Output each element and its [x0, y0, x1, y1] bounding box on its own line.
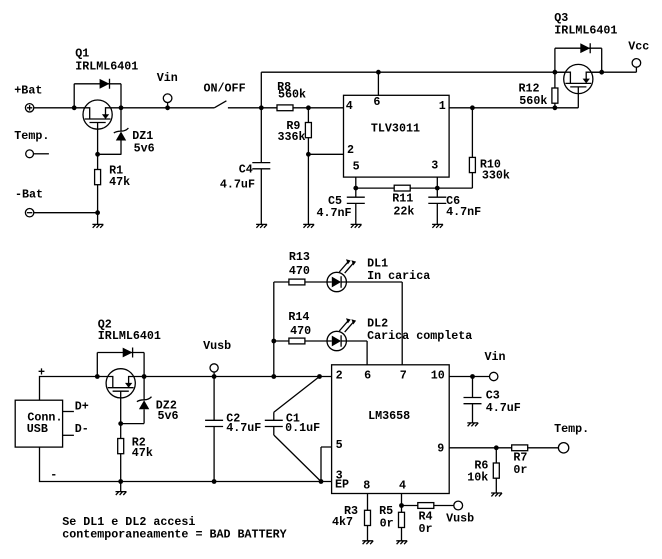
wire Q1 to switch [121, 107, 214, 109]
svg-text:Temp.: Temp. [554, 422, 589, 436]
diode body diode of Q3 [555, 43, 602, 72]
wire pin5 to ground rail [321, 447, 332, 482]
diode DZ1 zener [114, 108, 129, 155]
svg-text:Temp.: Temp. [14, 129, 49, 143]
svg-text:Vusb: Vusb [203, 339, 231, 353]
svg-text:330k: 330k [482, 169, 510, 183]
wire Q3 to Vcc [602, 67, 637, 72]
ground C3 [467, 423, 478, 426]
svg-text:R11: R11 [392, 191, 413, 205]
node Q1 right junction [119, 105, 124, 110]
terminal -Bat [15, 188, 43, 217]
LED DL2 [327, 318, 356, 351]
svg-text:C4: C4 [239, 163, 253, 177]
svg-text:4.7nF: 4.7nF [317, 206, 352, 220]
resistor R11 [392, 185, 414, 218]
svg-text:D+: D+ [75, 399, 89, 413]
svg-text:Carica completa: Carica completa [367, 329, 472, 343]
node C2 ground junction [212, 479, 217, 484]
wire USB minus / ground rail [40, 447, 332, 481]
LED DL1 [327, 259, 356, 292]
resistor R7 [512, 445, 559, 477]
terminal Vin bottom [485, 350, 506, 381]
ground R2 [116, 492, 127, 495]
wire +Bat to Q1 [34, 107, 75, 109]
transistor Q3 [555, 64, 602, 93]
node R9 bottom junction [306, 152, 311, 157]
node gate/DZ1/R1 junction [95, 152, 100, 157]
capacitor C1 [265, 377, 321, 482]
wire pin6 drop [377, 72, 379, 95]
node C1 top junction [317, 374, 322, 379]
terminal Vcc [628, 39, 649, 67]
wire Vusb rail [144, 376, 332, 378]
svg-text:47k: 47k [132, 446, 153, 460]
svg-text:470: 470 [290, 324, 311, 338]
svg-text:47k: 47k [109, 175, 130, 189]
resistor R2 [118, 424, 153, 482]
svg-text:2: 2 [336, 369, 343, 383]
svg-text:Q1: Q1 [75, 47, 89, 61]
resistor R6 [467, 448, 499, 493]
capacitor C3 [464, 377, 521, 423]
node R14 junction [271, 339, 276, 344]
wire pin4 [401, 494, 403, 506]
resistor R10 [469, 108, 510, 188]
resistor R8 [261, 80, 308, 111]
capacitor C6 [428, 188, 481, 224]
svg-text:EP: EP [335, 478, 349, 492]
resistor R13 [274, 250, 327, 285]
node pin5 ground junction [319, 479, 324, 484]
svg-text:In carica: In carica [367, 269, 430, 283]
switch ON/OFF [204, 82, 262, 108]
ground R9 [303, 224, 314, 227]
terminal Temp top [14, 129, 49, 158]
capacitor C4 [220, 108, 270, 225]
ground R3 [362, 541, 373, 544]
ground battery [92, 224, 103, 227]
svg-text:22k: 22k [393, 204, 414, 218]
wire DL2 cathode to pin6 [346, 341, 367, 365]
svg-text:-: - [50, 468, 57, 482]
node R6 junction [494, 445, 499, 450]
node R10 top junction [470, 105, 475, 110]
node pin5 junction [353, 186, 358, 191]
svg-text:5v6: 5v6 [134, 141, 155, 155]
svg-text:0.1uF: 0.1uF [285, 421, 320, 435]
wire top rail [261, 71, 601, 73]
diode body diode of Q2 [97, 348, 144, 377]
diode body diode of Q1 [74, 79, 121, 108]
svg-text:4k7: 4k7 [332, 515, 353, 529]
svg-text:0r: 0r [513, 463, 527, 477]
svg-text:0r: 0r [380, 516, 394, 530]
node R8/R9 junction [306, 105, 311, 110]
ground C4 [256, 224, 267, 227]
svg-text:contemporaneamente = BAD BATTE: contemporaneamente = BAD BATTERY [62, 528, 286, 542]
svg-text:2: 2 [347, 143, 354, 157]
wire pin9 to R7 [449, 447, 512, 449]
ground R5 [396, 541, 407, 544]
svg-text:Vcc: Vcc [628, 39, 649, 53]
diode DZ2 zener [137, 377, 152, 424]
svg-text:560k: 560k [519, 94, 547, 108]
svg-text:7: 7 [400, 369, 407, 383]
node gate/DZ2/R2 junction [118, 421, 123, 426]
svg-text:3: 3 [431, 159, 438, 173]
ground R6 [491, 493, 502, 496]
node pin4/R4/R5 junction [399, 503, 404, 508]
svg-text:6: 6 [373, 95, 380, 109]
resistor R4 [402, 503, 454, 537]
svg-text:IRLML6401: IRLML6401 [75, 60, 138, 74]
svg-text:470: 470 [289, 264, 310, 278]
wire pin2 [308, 153, 343, 155]
terminal +Bat [14, 83, 42, 112]
svg-text:6: 6 [364, 369, 371, 383]
ground C6 [432, 224, 443, 227]
svg-text:Vin: Vin [485, 350, 506, 364]
svg-text:+Bat: +Bat [14, 83, 42, 97]
terminal Vin top [157, 71, 178, 110]
node LED column bottom [271, 374, 276, 379]
terminal Vusb top [203, 339, 231, 379]
wire riser C4 column to top rail [260, 72, 262, 108]
node pin6 drop [376, 70, 381, 75]
ground C5 [351, 224, 362, 227]
wire Q3 gate [577, 94, 579, 108]
svg-text:R13: R13 [289, 250, 310, 264]
terminal Temp bottom [554, 422, 589, 453]
wire pin1 to Q3 gate column [449, 107, 578, 109]
svg-text:336k: 336k [278, 130, 306, 144]
svg-text:5: 5 [336, 438, 343, 452]
note text [62, 515, 286, 542]
capacitor C2 [205, 377, 261, 482]
resistor R9 [278, 108, 312, 155]
wire to ground [97, 213, 99, 225]
resistor R5 [379, 504, 404, 541]
terminal Vusb bottom [446, 501, 474, 525]
svg-text:10: 10 [431, 369, 445, 383]
svg-text:4.7nF: 4.7nF [446, 205, 481, 219]
svg-text:10k: 10k [467, 471, 488, 485]
pin D- stub [63, 422, 89, 436]
node R2 ground junction [118, 479, 123, 484]
node Q3 right junction [599, 70, 604, 75]
svg-text:4.7uF: 4.7uF [486, 401, 521, 415]
transistor Q2 [97, 369, 144, 398]
resistor R14 [274, 310, 327, 344]
svg-text:Vusb: Vusb [446, 511, 474, 525]
node C3 junction [470, 374, 475, 379]
wire R2 junction to ground [120, 482, 122, 492]
svg-text:IRLML6401: IRLML6401 [554, 24, 617, 38]
IC U2 LM3658 box [332, 365, 450, 494]
svg-text:USB: USB [27, 422, 48, 436]
svg-text:4.7uF: 4.7uF [226, 421, 261, 435]
wire LED feed column [273, 282, 275, 377]
node C4/R8 junction [259, 105, 264, 110]
svg-text:D-: D- [75, 422, 89, 436]
svg-text:-Bat: -Bat [15, 188, 43, 202]
node R12 bottom junction [553, 105, 558, 110]
resistor R1 [95, 154, 131, 212]
svg-text:560k: 560k [278, 88, 306, 102]
node -Bat/R1/ground junction [95, 210, 100, 215]
wire DL1 cathode to pin7 [346, 282, 402, 365]
svg-text:4: 4 [346, 99, 353, 113]
capacitor C5 [317, 188, 365, 224]
node Q2 right junction [142, 374, 147, 379]
resistor R3 pin8 [332, 494, 371, 541]
wire DZ1 bottom to gate junction [98, 129, 121, 154]
wire DZ2 bottom to gate junction [121, 398, 144, 424]
svg-text:8: 8 [363, 479, 370, 493]
resistor R12 [519, 72, 558, 108]
svg-text:5: 5 [353, 160, 360, 174]
wire pin5/pin3 bottom rail [356, 177, 473, 188]
svg-text:9: 9 [437, 442, 444, 456]
svg-text:0r: 0r [419, 522, 433, 536]
node Q3 left junction [553, 70, 558, 75]
svg-text:IRLML6401: IRLML6401 [98, 329, 161, 343]
USB connector box [15, 400, 62, 447]
wire R8 junction to pin4 [308, 107, 343, 109]
transistor Q1 [74, 100, 121, 129]
op-amp U1 TLV3011 box [344, 95, 450, 177]
wire -Bat to R1 [34, 212, 98, 214]
node Q2 left junction [95, 374, 100, 379]
pin D+ stub [63, 399, 89, 413]
node pin3 junction [435, 186, 440, 191]
svg-text:ON/OFF: ON/OFF [204, 82, 246, 96]
svg-text:R14: R14 [288, 310, 309, 324]
node Q1 left junction [72, 105, 77, 110]
wire R9 column to ground [307, 154, 309, 224]
svg-text:4.7uF: 4.7uF [220, 178, 255, 192]
wire pin10 to Vin [449, 376, 489, 378]
svg-text:4: 4 [399, 479, 406, 493]
svg-text:1: 1 [439, 99, 446, 113]
wire USB plus to Q2 [40, 377, 98, 401]
svg-text:TLV3011: TLV3011 [371, 122, 420, 136]
svg-text:5v6: 5v6 [158, 409, 179, 423]
svg-text:LM3658: LM3658 [368, 409, 410, 423]
svg-text:Vin: Vin [157, 71, 178, 85]
